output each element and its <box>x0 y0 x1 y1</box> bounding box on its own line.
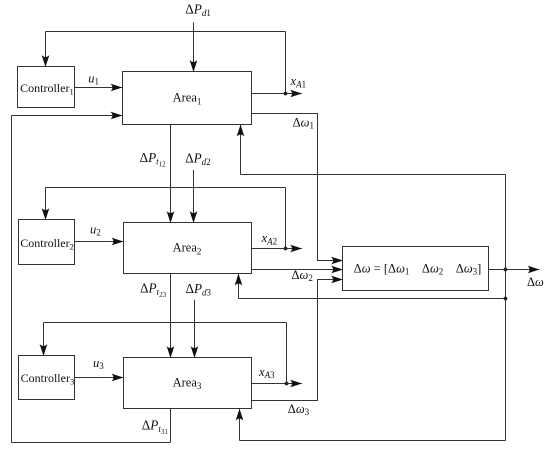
wire xA1 feedback top horizontal <box>46 31 286 33</box>
wire dw feedback horizontal to Area3 <box>240 440 506 442</box>
svg-text:Δω2: Δω2 <box>292 268 313 283</box>
wire dw feedback horizontal to Area1 <box>241 174 506 176</box>
wire drop into Controller3 top <box>43 323 45 356</box>
wire dw feedback into Area2 bottom <box>238 274 240 299</box>
wire u2 Controller2 to Area2 <box>75 241 124 243</box>
wire dPt31 left riser <box>11 116 13 443</box>
svg-text:ΔPd2: ΔPd2 <box>185 151 211 168</box>
wire dw1 from Area1 to combiner <box>252 114 343 261</box>
wire dPd2 disturbance into Area2 top <box>193 170 195 223</box>
wire xA3 feedback horizontal <box>44 322 287 324</box>
svg-text:Controller2: Controller2 <box>20 236 74 252</box>
node junction dw output <box>504 268 508 272</box>
wire dw feedback right riser <box>505 175 507 441</box>
wire dw feedback horizontal to Area2 <box>239 298 506 300</box>
svg-text:Controller1: Controller1 <box>20 81 74 97</box>
svg-text:u1: u1 <box>88 71 99 86</box>
svg-text:Δω: Δω <box>527 275 544 289</box>
node junction xA2 <box>284 247 288 251</box>
node junction dw feedback branch <box>504 297 508 301</box>
wire u3 Controller3 to Area3 <box>75 377 124 379</box>
wire xA3 feedback riser <box>286 323 288 384</box>
block Area2 box <box>124 223 252 274</box>
svg-text:xA2: xA2 <box>261 231 278 246</box>
svg-text:ΔPt23: ΔPt23 <box>140 280 167 299</box>
wire dPd1 disturbance into Area1 top <box>193 22 195 71</box>
wire dw feedback into Area1 bottom <box>240 125 242 175</box>
svg-text:Area3: Area3 <box>173 375 202 391</box>
svg-text:ΔPd3: ΔPd3 <box>186 281 212 298</box>
svg-text:Δω3: Δω3 <box>288 402 310 417</box>
svg-text:u3: u3 <box>93 356 104 371</box>
node junction xA3 <box>285 382 289 386</box>
wire u1 Controller1 to Area1 <box>75 87 123 89</box>
svg-text:xA1: xA1 <box>290 74 307 89</box>
svg-text:xA3: xA3 <box>258 365 275 380</box>
wire dw3 Area3 to combiner <box>252 280 343 401</box>
svg-text:ΔPt12: ΔPt12 <box>140 150 167 169</box>
wire xA1 output arrow <box>252 93 302 95</box>
wire dPt31 from Area3 bottom <box>170 409 172 443</box>
svg-text:Δω1: Δω1 <box>293 116 314 131</box>
svg-text:u2: u2 <box>90 223 101 238</box>
wire dPt31 into Area1 left <box>12 115 123 117</box>
wire xA2 feedback riser <box>285 188 287 249</box>
block Area1 box <box>123 72 252 125</box>
svg-text:ΔPt31: ΔPt31 <box>142 418 169 437</box>
controller Controller1 box <box>18 67 75 108</box>
svg-text:Δω = [Δω1 Δω2 Δω3]: Δω = [Δω1 Δω2 Δω3] <box>354 262 482 277</box>
svg-text:ΔPd1: ΔPd1 <box>185 1 211 18</box>
wire xA2 feedback horizontal <box>46 187 286 189</box>
wire dw feedback into Area3 bottom <box>239 409 241 441</box>
block Delta-omega combiner box <box>343 247 489 291</box>
wire dPt31 bottom horizontal <box>12 442 171 444</box>
wire dPd3 disturbance into Area3 top <box>194 300 196 358</box>
node junction xA1 <box>284 92 288 96</box>
wire xA1 feedback riser <box>285 32 287 94</box>
wire xA2 output arrow <box>252 248 302 250</box>
svg-text:Area2: Area2 <box>173 241 202 257</box>
block Area3 box <box>124 358 252 409</box>
svg-text:Area1: Area1 <box>173 91 202 107</box>
wire xA3 output arrow <box>252 383 302 385</box>
wire dPt23 Area2 to Area3 <box>170 274 172 358</box>
wire dw combiner output arrow <box>489 269 540 271</box>
controller Controller3 box <box>19 356 75 400</box>
controller Controller2 box <box>19 220 75 265</box>
svg-text:Controller3: Controller3 <box>21 371 75 387</box>
wire drop into Controller1 top <box>45 32 47 67</box>
wire dw2 Area2 to combiner <box>252 269 343 271</box>
wire drop into Controller2 top <box>45 188 47 220</box>
wire dPt12 Area1 to Area2 <box>170 125 172 223</box>
